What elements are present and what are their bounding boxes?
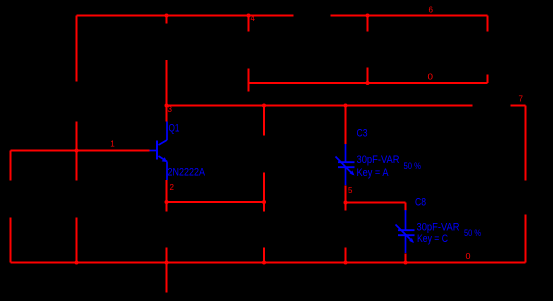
junction ground rail x405: [404, 261, 408, 265]
wire x166 to node 3: [166, 60, 168, 106]
junction ground rail x76: [75, 261, 79, 265]
junction node 1 at left rail: [75, 149, 79, 153]
svg-text:0: 0: [428, 73, 434, 82]
junction top rail x367: [366, 14, 370, 18]
junction top rail x166: [165, 14, 169, 18]
wire bottom ground rail: [11, 262, 526, 264]
svg-text:2: 2: [170, 183, 175, 192]
wire mid vertical lower: [263, 173, 265, 212]
wire Q1 emitter lead red: [166, 180, 168, 212]
svg-text:3: 3: [168, 105, 173, 114]
capacitor C3 variable: [336, 144, 355, 185]
svg-text:C3: C3: [357, 128, 368, 140]
wire left drop lower: [10, 218, 12, 263]
wire ground stub below rail: [166, 263, 168, 293]
junction node 3: [165, 104, 169, 108]
wire mid vertical upper: [263, 106, 265, 136]
capacitor C8 variable: [396, 210, 415, 253]
wire C3 bottom lead red node 5: [345, 186, 347, 211]
svg-text:Q1: Q1: [169, 123, 180, 135]
wire x487 top stub: [487, 16, 489, 32]
wire x263 to ground rail: [263, 248, 265, 263]
wire Q1 collector lead red: [166, 106, 168, 122]
junction net 0 x367: [366, 81, 370, 85]
junction mid vertical node 3: [262, 104, 266, 108]
capacitor C8 arrow head: [409, 238, 414, 243]
svg-text:50 %: 50 %: [404, 161, 422, 172]
svg-text:5: 5: [348, 186, 353, 195]
wire net 7 stub: [511, 105, 526, 107]
wire right rail upper: [525, 106, 527, 181]
wire net 0 horizontal: [249, 82, 488, 84]
wire x345 to ground rail: [345, 248, 347, 263]
transistor Q1: [150, 122, 168, 181]
wire left rail middle: [76, 122, 78, 181]
wire net 3 horizontal: [167, 105, 473, 107]
junction ground rail x166: [165, 261, 169, 265]
wire right rail lower: [525, 215, 527, 263]
svg-text:50 %: 50 %: [464, 228, 481, 239]
capacitor C3 arrow head: [350, 171, 355, 176]
junction C3 top node 3: [344, 104, 348, 108]
svg-text:30pF-VAR: 30pF-VAR: [357, 154, 400, 166]
wire x248 lower stub: [248, 69, 250, 92]
svg-text:30pF-VAR: 30pF-VAR: [417, 222, 460, 234]
wire x248 top stub: [248, 16, 250, 32]
wire x367 lower stub: [367, 68, 369, 84]
junction ground rail x263: [262, 261, 266, 265]
junction node 2 right: [262, 200, 266, 204]
transistor Q1 emitter arrow: [162, 157, 167, 162]
wire x166 to ground rail: [166, 248, 168, 263]
junction ground rail x345: [344, 261, 348, 265]
svg-text:0: 0: [466, 252, 472, 261]
svg-text:C8: C8: [415, 197, 426, 209]
wire net 5 horizontal: [346, 202, 406, 204]
wire node 1 base line: [11, 150, 150, 152]
svg-text:2N2222A: 2N2222A: [168, 167, 206, 179]
svg-text:Key = C: Key = C: [417, 233, 448, 245]
wire C8 top lead red: [405, 203, 407, 211]
wire left rail upper: [76, 16, 78, 82]
wire top rail left segment: [77, 15, 294, 17]
wire left drop upper: [10, 151, 12, 181]
wire x367 top stub: [367, 16, 369, 32]
junction node 2 left: [165, 200, 169, 204]
wire left rail lower: [76, 218, 78, 263]
svg-text:7: 7: [519, 95, 524, 104]
junction top rail x248 node 4: [247, 14, 251, 18]
wire C8 bottom lead red: [405, 254, 407, 263]
wire x487 lower stub: [487, 75, 489, 84]
wire x166 top stub: [166, 16, 168, 24]
junction node 5 at C3: [344, 201, 348, 205]
svg-text:1: 1: [110, 139, 115, 148]
wire C3 top lead red: [345, 106, 347, 145]
svg-text:Key = A: Key = A: [357, 167, 390, 179]
svg-text:4: 4: [251, 14, 256, 23]
wire top rail right segment: [331, 15, 488, 17]
wire net 2 horizontal: [167, 201, 265, 203]
svg-text:6: 6: [429, 6, 434, 15]
